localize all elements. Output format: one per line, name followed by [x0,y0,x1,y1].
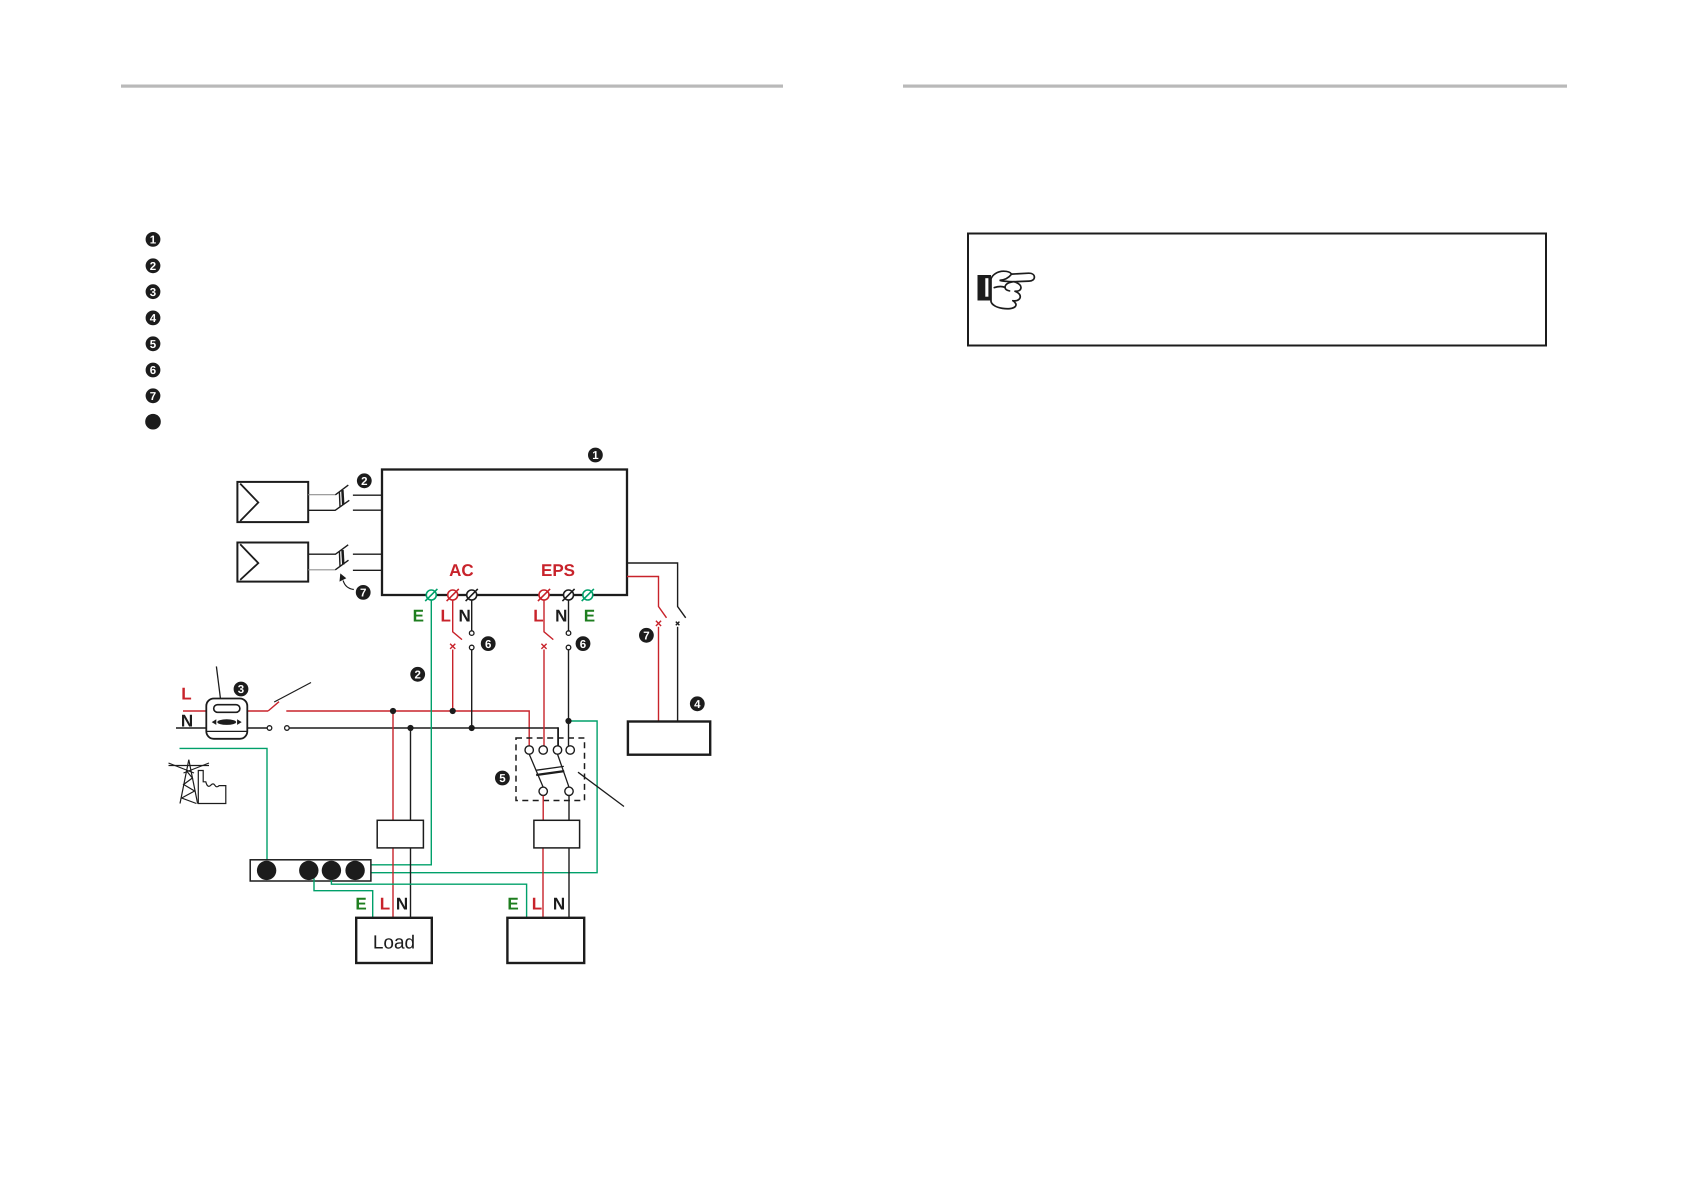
svg-text:5: 5 [499,773,506,785]
svg-text:N: N [553,895,565,914]
svg-text:E: E [507,895,518,914]
svg-text:2: 2 [150,261,156,273]
svg-text:7: 7 [643,631,649,643]
svg-text:Load: Load [373,933,415,954]
svg-text:7: 7 [360,588,366,600]
svg-text:2: 2 [414,670,420,682]
svg-text:N: N [458,607,470,626]
svg-text:1: 1 [592,450,599,462]
svg-text:E: E [584,607,595,626]
svg-text:EPS: EPS [541,561,575,580]
svg-text:E: E [413,607,424,626]
svg-text:3: 3 [238,684,244,696]
svg-text:4: 4 [694,699,701,711]
svg-text:N: N [181,712,193,731]
svg-text:3: 3 [150,287,156,299]
svg-text:2: 2 [361,476,367,488]
svg-text:L: L [181,684,191,703]
svg-text:L: L [441,607,451,626]
svg-text:5: 5 [150,339,157,351]
svg-text:L: L [380,895,390,914]
svg-text:N: N [396,895,408,914]
svg-text:N: N [555,607,567,626]
svg-text:6: 6 [485,639,491,651]
svg-text:1: 1 [150,235,157,247]
svg-text:7: 7 [150,391,156,403]
svg-text:AC: AC [449,561,474,580]
svg-text:L: L [532,895,542,914]
svg-text:4: 4 [150,313,157,325]
svg-text:L: L [533,607,543,626]
svg-text:6: 6 [150,365,156,377]
svg-text:E: E [355,895,366,914]
svg-text:6: 6 [580,639,586,651]
